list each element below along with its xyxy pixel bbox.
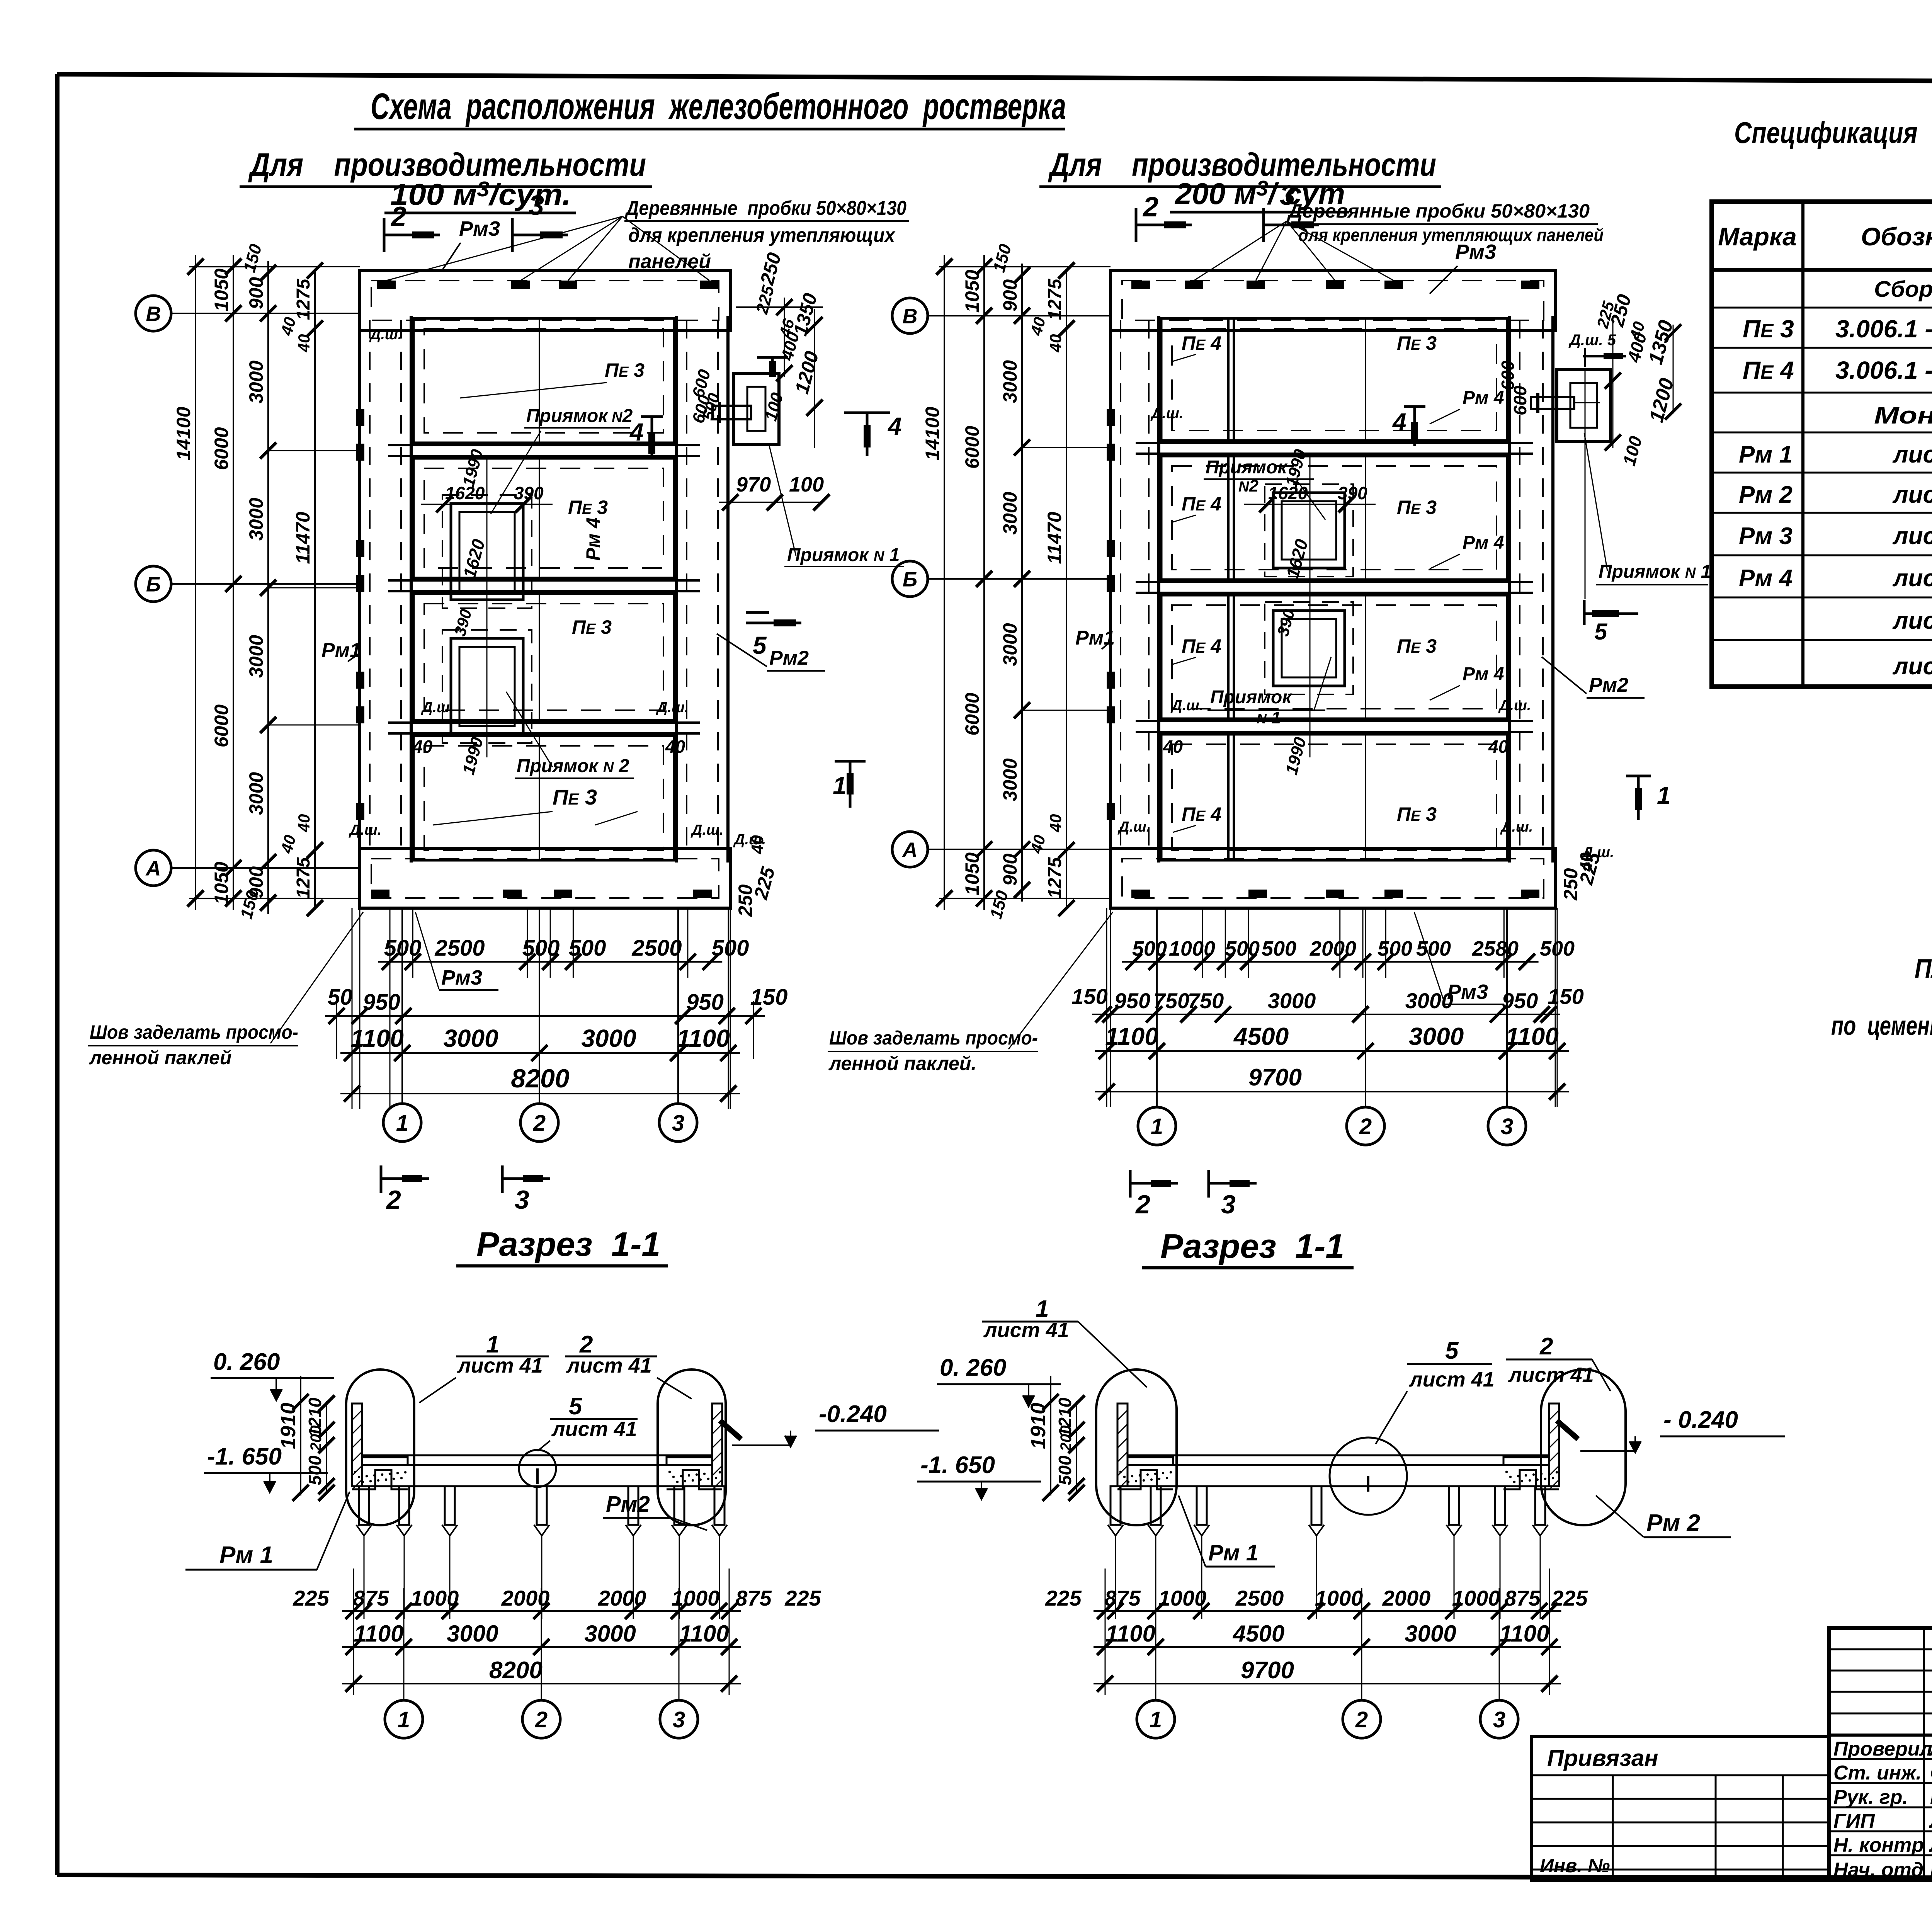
svg-text:Рм 4: Рм 4 (582, 517, 604, 561)
sec1 callout 2 list 41 (565, 1331, 692, 1399)
svg-text:Проверил: Проверил (1833, 1738, 1932, 1760)
plan2 left chain 1275/40/11470/40/1275 (1044, 262, 1075, 916)
svg-text:11470: 11470 (292, 512, 314, 564)
svg-text:2: 2 (535, 1707, 548, 1732)
svg-text:Рм 4: Рм 4 (1463, 532, 1504, 553)
sec1 label Pm1 with leader (185, 1492, 350, 1570)
plan1 note seam caulk bottom left (88, 912, 363, 1068)
svg-text:4500: 4500 (1233, 1621, 1284, 1647)
svg-text:Рм 2: Рм 2 (1739, 481, 1793, 508)
svg-text:3000: 3000 (245, 498, 267, 541)
svg-text:1100: 1100 (679, 1621, 729, 1647)
svg-text:Нач. отд: Нач. отд (1833, 1859, 1923, 1881)
plan2 section mark 4 (1392, 407, 1425, 446)
plan2 note wooden plugs (1287, 200, 1604, 245)
sec1 bottom axis circles (385, 1588, 698, 1738)
plan1 section marks 2,3 below (381, 1165, 550, 1215)
svg-text:1100: 1100 (1505, 1022, 1559, 1050)
sec1 left elevation dimension chain (277, 1376, 335, 1501)
plan1 bottom axis 2 stem (539, 908, 540, 1104)
svg-text:Д.ш.: Д.ш. (1150, 405, 1183, 422)
plan1 wooden plugs on bottom band (371, 890, 712, 898)
svg-text:0. 260: 0. 260 (940, 1354, 1006, 1381)
plan2 pit lower (1265, 602, 1353, 694)
svg-text:Плиты укладывать на моно: Плиты укладывать на монолитные ростверки (1915, 953, 1932, 983)
svg-text:50: 50 (328, 985, 353, 1010)
svg-text:Деревянные пробки 50×80×130: Деревянные пробки 50×80×130 (1287, 200, 1590, 222)
plan2 labels Pe4 (1173, 332, 1221, 832)
svg-text:Рм 4: Рм 4 (1463, 664, 1504, 684)
plan2 bottom dim row 9700 (1095, 1091, 1569, 1092)
svg-text:-1. 650: -1. 650 (207, 1443, 282, 1470)
plan1 right wall Rm2 (677, 316, 728, 863)
svg-text:3000: 3000 (1409, 1022, 1464, 1050)
main title (354, 86, 1066, 129)
svg-text:1100: 1100 (677, 1024, 730, 1052)
svg-text:1000: 1000 (1452, 1586, 1500, 1610)
svg-text:Д.ш.: Д.ш. (1581, 844, 1614, 861)
plan1 section mark 1 right (833, 761, 866, 808)
plan1 axis А line (171, 867, 360, 869)
svg-text:Рм 1: Рм 1 (1739, 441, 1793, 468)
plan1 compartment 2 slab field (413, 458, 674, 578)
svg-text:Привязан: Привязан (1547, 1745, 1658, 1771)
sec1 bottom dim row B (342, 1646, 741, 1648)
svg-text:-1. 650: -1. 650 (920, 1452, 995, 1478)
plan2 left chain tie lines (939, 242, 1072, 921)
svg-text:1620: 1620 (445, 483, 485, 503)
svg-text:Ст. инж.: Ст. инж. (1833, 1762, 1922, 1784)
svg-text:Д.ш.: Д.ш. (369, 327, 402, 343)
svg-text:900: 900 (245, 277, 267, 310)
plan2 label Pm1 with leader (1075, 627, 1115, 649)
svg-text:Краснова: Краснова (1930, 1786, 1932, 1808)
plan2 label Priyamok lower (1207, 657, 1331, 727)
subtitle plan 2 (1039, 146, 1441, 212)
sec2 callout 5 list 41 (1376, 1337, 1495, 1444)
svg-text:Рм2: Рм2 (1589, 674, 1628, 696)
sec1 detail node circle 5 (519, 1450, 556, 1487)
svg-text:Н. контр: Н. контр (1833, 1834, 1924, 1856)
sec2 extension lines to dim rows (1105, 1536, 1549, 1695)
svg-text:5: 5 (753, 631, 767, 659)
svg-text:Рм 3: Рм 3 (1739, 523, 1793, 550)
sec1 right tank capsule (658, 1369, 726, 1525)
sec2 label Pm2 with leader (1596, 1495, 1731, 1537)
sec2 bottom axis circles (1137, 1588, 1518, 1738)
svg-text:Спецификация к схеме рас: Спецификация к схеме расположения железо… (1734, 116, 1932, 150)
svg-text:11470: 11470 (1044, 512, 1065, 564)
sec2 callout 1 list 41 (982, 1296, 1147, 1387)
note: slabs on mortar (1831, 953, 1932, 1041)
sec1 left footing with notch (352, 1457, 408, 1489)
svg-text:500: 500 (305, 1455, 325, 1485)
svg-text:3: 3 (515, 1185, 529, 1215)
plan1 left chain top tie line (189, 266, 321, 267)
plan2 d.sh.5 and section mark 5 top right (1568, 332, 1626, 367)
svg-text:500: 500 (1225, 937, 1260, 960)
sec1 right footing with notch (667, 1457, 722, 1489)
spec table row Рм 3 (1739, 523, 1932, 550)
svg-text:900: 900 (999, 854, 1021, 886)
sec2 label -0.240 (1580, 1407, 1785, 1453)
svg-text:150: 150 (750, 985, 788, 1010)
plan1 pipe stub into Priyamok N1 (713, 402, 751, 423)
svg-text:500: 500 (1416, 937, 1451, 960)
svg-text:3000: 3000 (1268, 988, 1316, 1013)
spec table row Рм 2 (1739, 481, 1932, 508)
spec table row Pe3 (1743, 315, 1932, 343)
svg-text:875: 875 (353, 1586, 389, 1610)
plan2 axis В line (928, 315, 1111, 316)
svg-text:2: 2 (1539, 1333, 1553, 1360)
plan2 bottom dim row 1100/4500/3000/1100 (1095, 1050, 1569, 1052)
svg-text:14100: 14100 (173, 407, 194, 460)
sec1 left wall section hatched (352, 1404, 362, 1489)
svg-text:2: 2 (1355, 1707, 1368, 1732)
svg-text:6000: 6000 (211, 427, 232, 470)
svg-text:3: 3 (673, 1707, 685, 1732)
plan2 compartment 2 slab field (1161, 456, 1507, 580)
sec2 left footing with notch (1117, 1457, 1173, 1489)
svg-text:100: 100 (789, 473, 824, 496)
plan1 left dimension chain 1275/40/11470/40/1275 (314, 270, 316, 908)
svg-text:В: В (146, 302, 161, 325)
sec1 label 0.260 (211, 1349, 334, 1400)
svg-text:225: 225 (1551, 1586, 1588, 1610)
sec2 bottom dim row B (1094, 1646, 1561, 1648)
plan2 right wall Rm2 (1510, 316, 1553, 863)
plan1 left wall Rm1 (356, 316, 411, 863)
svg-text:40: 40 (412, 737, 433, 757)
svg-text:лист 42: лист 42 (1892, 523, 1932, 550)
plan2 bottom axis circle 2 (1347, 1107, 1384, 1145)
svg-text:Монолитные конструкции: Монолитные конструкции (1874, 402, 1932, 429)
plan2 rotated dims bottom right 250 225 (1560, 844, 1614, 901)
svg-text:N 1: N 1 (1257, 708, 1281, 727)
plan1 bottom axis 1 stem (401, 908, 403, 1104)
plan1 bottom axis circle 2 (520, 1104, 558, 1142)
svg-text:1910: 1910 (1027, 1403, 1050, 1449)
svg-text:лист 41: лист 41 (457, 1354, 543, 1377)
plan2 extension lines to structure (928, 267, 1111, 898)
sec1 callout 5 list 41 (537, 1393, 638, 1451)
svg-text:6000: 6000 (961, 692, 983, 735)
plan2 labels Pe3 (1397, 332, 1437, 825)
sec1 label Pm2 with leader (603, 1492, 707, 1530)
privyazan box (1531, 1737, 1829, 1880)
svg-text:Рм2: Рм2 (769, 647, 809, 669)
svg-text:4500: 4500 (1233, 1022, 1289, 1050)
plan1 bottom grillage band Rm3 (360, 849, 730, 908)
svg-text:Обозначение: Обозначение (1861, 222, 1932, 251)
svg-text:Рм3: Рм3 (459, 217, 500, 240)
plan2 section mark 4 between plans (844, 412, 902, 456)
plan1 bottom dim row 500/2500/500/500/2500/500 (378, 961, 722, 963)
plan1 compartment 3 slab field (413, 594, 674, 720)
sec2 left elevation dimension chain (1027, 1376, 1085, 1501)
svg-text:1000: 1000 (1158, 1586, 1207, 1610)
sec2 left wall section hatched (1117, 1404, 1128, 1489)
plan1 leaders from plugs note to plugs (386, 216, 709, 281)
sec1 callout 1 list 41 (419, 1331, 549, 1403)
svg-text:Приямок: Приямок (1206, 457, 1288, 478)
sec1 bottom dim row total (342, 1683, 741, 1684)
svg-text:40: 40 (665, 737, 685, 757)
sec2 spout at right wall top (1557, 1421, 1578, 1439)
svg-text:для крепления утепляющих панел: для крепления утепляющих панелей (1298, 225, 1604, 245)
svg-text:лист 42: лист 42 (1892, 441, 1932, 468)
svg-text:1: 1 (833, 772, 847, 800)
svg-text:3000: 3000 (447, 1621, 498, 1647)
sec1 bottom dim row A (342, 1610, 741, 1612)
plan1 bottom dim row 1100/3000/3000/1100 (340, 1052, 740, 1054)
spec table row Приямок (1892, 653, 1932, 680)
svg-text:950: 950 (363, 990, 400, 1015)
svg-text:3: 3 (672, 1111, 684, 1136)
svg-text:Разрез 1-1: Разрез 1-1 (476, 1225, 660, 1263)
plan2 wooden plugs on bottom band (1131, 890, 1539, 898)
svg-text:5: 5 (1445, 1337, 1459, 1364)
plan1 section mark 4 (629, 417, 663, 456)
plan1 left dimension chain overall 14100 (173, 255, 204, 910)
plan2 top grillage band Rm3 (1111, 270, 1555, 330)
plan1 wooden plugs on top band (377, 281, 719, 289)
plan1 pit dimension labels (421, 447, 553, 777)
plan1 label Priyamok N2 upper with leader (491, 406, 633, 514)
svg-text:5: 5 (569, 1393, 583, 1420)
svg-text:2500: 2500 (1235, 1586, 1284, 1610)
plan2 label Pm2 with leader (1542, 657, 1645, 698)
plan2 label Rm3 bottom with leader (1414, 912, 1504, 1004)
svg-text:2580: 2580 (1472, 937, 1519, 960)
plan1 label Pe3 compartment 1 (460, 359, 645, 398)
plan2 bottom axis 3 stem (1506, 908, 1508, 1107)
svg-text:Рм3: Рм3 (441, 966, 482, 989)
svg-text:40: 40 (1046, 334, 1065, 353)
sec1 spout at right wall top (720, 1421, 741, 1439)
svg-text:Д.ш.: Д.ш. (421, 699, 454, 716)
plan2 compartment 3 slab field (1161, 595, 1507, 719)
svg-text:40: 40 (1046, 814, 1065, 833)
svg-text:Рм1: Рм1 (1075, 627, 1115, 649)
svg-text:950: 950 (1502, 988, 1538, 1013)
svg-text:- 0.240: - 0.240 (1663, 1407, 1738, 1433)
svg-text:Рук. гр.: Рук. гр. (1833, 1786, 1908, 1808)
svg-text:6000: 6000 (211, 704, 232, 747)
svg-text:для крепления утепляющих: для крепления утепляющих (628, 224, 896, 247)
svg-text:2: 2 (390, 201, 406, 232)
svg-text:3000: 3000 (999, 758, 1021, 801)
svg-text:4: 4 (1392, 408, 1406, 436)
svg-text:500: 500 (1132, 937, 1167, 960)
svg-text:1: 1 (1150, 1707, 1162, 1732)
svg-text:150: 150 (1071, 984, 1107, 1009)
svg-text:875: 875 (1504, 1586, 1541, 1610)
svg-text:Деревянные пробки 50×80×130: Деревянные пробки 50×80×130 (624, 197, 906, 219)
svg-text:1100: 1100 (1105, 1022, 1158, 1050)
plan1 label Priyamok N1 with leader (769, 444, 904, 567)
plan1 rotated dims bottom right 250 225 (733, 832, 779, 917)
svg-text:1000: 1000 (1315, 1586, 1363, 1610)
plan1 bottom axis circle 3 (659, 1104, 697, 1142)
svg-text:лист 41: лист 41 (1508, 1363, 1594, 1387)
spec table row Рм 1 (1739, 441, 1932, 468)
svg-text:3000: 3000 (245, 361, 267, 403)
plan1 dims 970 100 below appendage (719, 473, 830, 510)
plan1 note wooden plugs (624, 197, 909, 273)
plan2 bottom axis circle 1 (1138, 1107, 1176, 1145)
svg-text:40: 40 (295, 334, 313, 353)
svg-text:0. 260: 0. 260 (213, 1349, 280, 1375)
sec1 label -1.650 (204, 1443, 328, 1492)
plan1 compartment 1 slab field (413, 318, 674, 443)
plan2 rotated dims near Priyamok N1 (1498, 292, 1681, 468)
svg-text:3000: 3000 (245, 635, 267, 678)
plan2 bottom extension lines (1107, 908, 1557, 1107)
plan2 d.sh. labels (1117, 405, 1533, 835)
sec1 left tank capsule (346, 1369, 414, 1525)
svg-text:Д.ш.: Д.ш. (1500, 819, 1533, 835)
sec1 label -0.240 (732, 1401, 939, 1447)
plan1 pit Priyamok N1 appendage (734, 373, 779, 444)
svg-text:9700: 9700 (1248, 1064, 1302, 1091)
plan1 bottom axis 3 stem (677, 908, 679, 1104)
plan2 compartment 1 slab field (1161, 318, 1507, 441)
svg-text:по цементно-песчаному раств: по цементно-песчаному раствору марки 200 (1831, 1011, 1932, 1041)
plan1 bottom axis circle 1 (383, 1104, 421, 1142)
svg-text:500: 500 (1055, 1455, 1075, 1485)
svg-text:1100: 1100 (1499, 1621, 1549, 1647)
svg-text:2: 2 (1135, 1190, 1150, 1219)
svg-text:Д.ш.: Д.ш. (656, 699, 689, 716)
plan2 left dimension chain overall 14100 (922, 255, 952, 910)
sec2 bottom dim row total (1094, 1683, 1561, 1684)
sec1 floor slab (362, 1455, 712, 1486)
plan2 pit Priyamok N2 upper (1265, 484, 1353, 577)
plan1 top grillage band Rm3 (360, 270, 730, 330)
plan1 d.sh. deformation joint labels (349, 327, 723, 838)
svg-text:А: А (902, 838, 918, 861)
svg-text:4: 4 (629, 418, 644, 446)
plan2 axis Б line (928, 578, 1111, 580)
plan1 compartment divider 3 (388, 723, 700, 733)
plan2 compartment divider 1 (1136, 443, 1533, 454)
svg-text:1910: 1910 (277, 1403, 300, 1449)
svg-text:лист 41: лист 41 (566, 1354, 652, 1377)
svg-text:панелей: панелей (628, 250, 711, 273)
subtitle plan 1 (240, 146, 652, 213)
svg-text:-0.240: -0.240 (819, 1401, 887, 1427)
svg-text:Схема расположения железобет: Схема расположения железобетонного роств… (371, 86, 1066, 127)
plan2 wooden plugs on top band (1131, 281, 1539, 289)
svg-text:1: 1 (1151, 1114, 1163, 1139)
svg-text:970: 970 (736, 473, 771, 496)
sec2 label Pm1 with leader (1179, 1495, 1275, 1567)
svg-text:950: 950 (686, 990, 724, 1015)
sec1 right wall section hatched (712, 1404, 722, 1489)
plan2 section mark 5 right (1584, 371, 1638, 645)
svg-text:3: 3 (529, 190, 544, 221)
svg-text:1: 1 (398, 1707, 410, 1732)
plan1 extension lines from chains to structure (171, 267, 360, 898)
sec2 label 0.260 (937, 1354, 1061, 1407)
svg-text:1275: 1275 (1045, 857, 1065, 898)
plan2 left chain 900/3000x4/900 (1021, 264, 1023, 902)
plan1 section mark 4 left area (0, 0, 0, 0)
svg-text:Рм1: Рм1 (321, 639, 361, 662)
svg-text:3.006.1 - 2/82: 3.006.1 - 2/82 (1835, 356, 1932, 384)
plan2 bottom axis 2 stem (1365, 908, 1366, 1107)
svg-text:Сборные железобетонные к: Сборные железобетонные конструкции (1874, 277, 1932, 302)
svg-text:Д.ш. 5: Д.ш. 5 (1568, 332, 1616, 349)
spec table grid (1712, 202, 1932, 687)
plan2 pit Priyamok N1 appendage (1557, 369, 1611, 441)
plan2 axis А circle (892, 832, 928, 867)
svg-text:ГИП: ГИП (1833, 1810, 1875, 1832)
plan2 compartment divider 2 (1136, 582, 1533, 593)
plan2 bottom axis 1 stem (1156, 908, 1158, 1107)
plan2 label Priyamok N1 with leader (1584, 433, 1711, 585)
svg-text:Д.ш.: Д.ш. (690, 822, 723, 838)
svg-text:1050: 1050 (961, 852, 983, 895)
plan1 small 40 labels at dividers (277, 315, 685, 856)
specification table title (1734, 116, 1932, 179)
svg-text:3000: 3000 (1405, 988, 1454, 1013)
svg-text:Приямок: Приямок (1210, 687, 1293, 708)
plan1 label Priyamok N2 lower with leader (506, 692, 634, 778)
plan1 section mark 5 right (746, 612, 801, 659)
plan2 left wall Rm1 (1107, 316, 1159, 863)
svg-text:лист 42: лист 42 (1892, 653, 1932, 680)
plan2 section 5-5 cut trace (1585, 371, 1586, 599)
spec table row Рм 4 (1739, 565, 1932, 592)
svg-text:2: 2 (533, 1111, 546, 1136)
svg-text:ленной паклей.: ленной паклей. (828, 1053, 976, 1074)
svg-text:Д.ш.: Д.ш. (1170, 698, 1203, 714)
svg-text:225: 225 (1045, 1586, 1082, 1610)
svg-text:Д.ш.: Д.ш. (349, 822, 381, 838)
plan2 axis А line (928, 849, 1111, 850)
plan2 bottom grillage band Rm3 (1111, 849, 1555, 908)
sec2 callout 2 list 41 (1506, 1333, 1611, 1391)
svg-text:Рм 1: Рм 1 (1208, 1540, 1259, 1565)
sec2 piles under slab (1108, 1486, 1548, 1536)
svg-text:8200: 8200 (511, 1064, 569, 1093)
plan1 label Rm3 bottom with leader (415, 912, 498, 990)
plan1 axis В line (171, 313, 360, 314)
svg-text:40: 40 (295, 814, 313, 833)
svg-text:Б: Б (903, 568, 917, 591)
svg-text:1050: 1050 (961, 270, 983, 313)
svg-text:40: 40 (1488, 737, 1509, 757)
plan1 axis Б line (171, 583, 360, 585)
svg-text:900: 900 (999, 279, 1021, 312)
svg-text:200: 200 (1058, 1426, 1075, 1452)
svg-text:Смирнова: Смирнова (1930, 1762, 1932, 1784)
svg-text:3000: 3000 (1405, 1621, 1456, 1647)
plan2 section mark 2 top (1136, 192, 1192, 242)
svg-text:875: 875 (735, 1586, 772, 1610)
plan1 appendage dimension chains (736, 298, 823, 448)
svg-text:2000: 2000 (598, 1586, 646, 1610)
plan2 bottom dim row 150/950/750/750/3000/3000/950/150 (1092, 1014, 1560, 1015)
svg-text:1: 1 (396, 1111, 408, 1136)
sec1 piles under slab (356, 1486, 727, 1536)
plan1 label Pe3 compartment 4 (433, 785, 638, 825)
svg-text:Красавин: Красавин (1930, 1859, 1932, 1881)
sec1 extension lines to dim rows (354, 1536, 729, 1695)
